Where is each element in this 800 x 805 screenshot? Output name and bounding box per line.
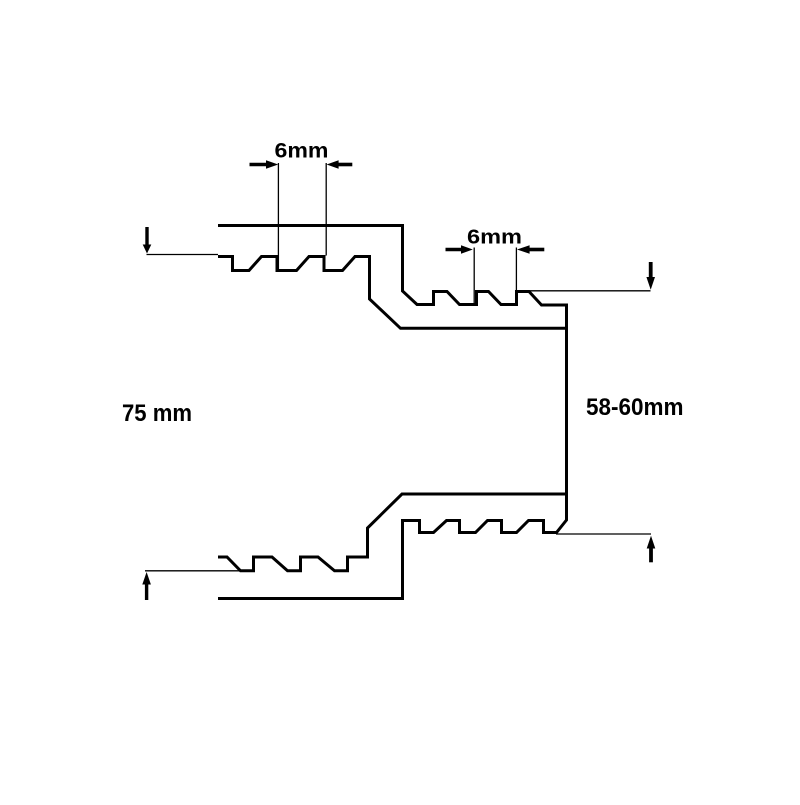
arrow up bottom-left bbox=[145, 584, 148, 601]
6mm right-pipe right arrow (points left) bbox=[529, 248, 545, 252]
dim line top-left (75mm upper reference) bbox=[147, 254, 219, 256]
6mm dimension (right pipe) extension lines bbox=[473, 248, 475, 304]
dim line bottom-left (75mm lower reference) bbox=[145, 570, 240, 572]
svg-text:58-60mm: 58-60mm bbox=[586, 395, 684, 421]
svg-text:6mm: 6mm bbox=[275, 139, 329, 163]
svg-text:6mm: 6mm bbox=[467, 225, 522, 248]
6mm right-pipe left arrow (points right) bbox=[446, 248, 463, 252]
6mm dimension (left socket) extension lines bbox=[277, 163, 279, 270]
outer outline: top wall outer surface, right end face, bottom wall outer surface bbox=[218, 226, 567, 599]
dim line top-right (58-60 upper reference) bbox=[529, 290, 651, 292]
dim line bottom-right (58-60 lower reference) bbox=[556, 533, 651, 535]
svg-text:75 mm: 75 mm bbox=[122, 400, 192, 427]
inner surface of top wall (barbed socket profile, left) bbox=[218, 257, 566, 329]
arrow down top-left bbox=[145, 227, 148, 246]
inner surface of bottom wall (barbed socket profile, left) bbox=[218, 494, 566, 571]
6mm right arrow (points left) bbox=[338, 163, 353, 167]
arrow up bottom-right bbox=[649, 548, 653, 563]
6mm left arrow (points right) bbox=[250, 163, 268, 167]
arrow down top-right bbox=[649, 262, 653, 278]
